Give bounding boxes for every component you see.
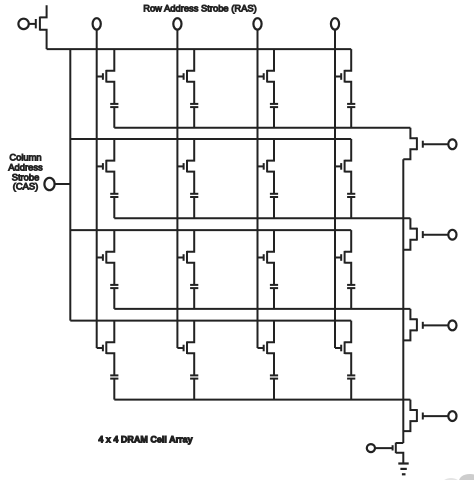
wire Q12 source to capacitor: [187, 82, 194, 104]
wire QR1 gate lead: [423, 143, 449, 145]
wire QR3 drain jog: [410, 309, 417, 319]
wire QR2 source to common line: [403, 240, 417, 250]
wire C24 to storage bus: [350, 197, 352, 218]
wire Q14 drain to row bus: [345, 49, 352, 71]
wire Q24 drain to row bus: [345, 139, 352, 161]
wire Q21 source to capacitor: [106, 172, 114, 194]
wire Q23 gate lead: [258, 165, 264, 167]
wire QR3 source to common line: [403, 330, 417, 340]
transistor Q12 gate bar: [183, 73, 185, 80]
wire word line 1: [96, 30, 98, 348]
transistor Q22 channel: [186, 160, 188, 173]
wire Q42 source to capacitor: [187, 353, 194, 375]
transistor QR3 channel: [416, 318, 418, 331]
wire Q41 gate lead: [97, 347, 103, 349]
capacitor C34 top plate: [347, 284, 355, 286]
transistor Q11 gate bar: [102, 73, 104, 80]
transistor QR1 gate bar: [422, 141, 424, 148]
terminal CAS input: [44, 178, 54, 190]
wire Q-RAS drain up: [40, 5, 47, 17]
wire QR2 gate lead: [423, 234, 449, 236]
wire Q13 gate lead: [258, 76, 264, 78]
transistor Q34 channel: [344, 251, 346, 264]
wire Q21 gate lead: [97, 165, 103, 167]
wire C33 to storage bus: [273, 288, 275, 309]
capacitor C44 bottom plate: [347, 378, 355, 380]
wire Q34 gate lead: [335, 257, 341, 259]
wire C43 to storage bus: [273, 379, 275, 400]
wire Q13 source to capacitor: [267, 82, 274, 104]
wire QR4 source to common line: [403, 421, 417, 431]
wire Q22 drain to row bus: [187, 139, 194, 161]
wire Q44 source to capacitor: [345, 353, 352, 375]
wire Q-RAS source down: [40, 30, 47, 49]
wire Q24 source to capacitor: [345, 172, 352, 194]
transistor Q21 channel: [105, 160, 107, 173]
wire Q32 gate lead: [177, 257, 183, 259]
wire row 1 storage bus: [114, 127, 410, 129]
wire C22 to storage bus: [193, 197, 195, 218]
wire row 3 top bus: [70, 229, 351, 231]
wire row 4 storage bus: [114, 399, 410, 401]
transistor Q22 gate bar: [183, 163, 185, 170]
wire Q12 drain to row bus: [187, 49, 194, 71]
transistor Q13 gate bar: [263, 73, 265, 80]
wire Q14 source to capacitor: [345, 82, 352, 104]
transistor Q21 gate bar: [102, 163, 104, 170]
transistor QR2 gate bar: [422, 231, 424, 238]
wire C12 to storage bus: [193, 107, 195, 128]
wire CAS vertical bus: [69, 49, 71, 321]
transistor Q-OUT gate bar: [392, 445, 394, 450]
wire row 3 storage bus: [114, 308, 410, 310]
wire Q44 drain to row bus: [345, 321, 352, 343]
wire C23 to storage bus: [273, 197, 275, 218]
terminal output enable: [367, 444, 375, 452]
capacitor C21 bottom plate: [110, 196, 118, 198]
transistor Q43 channel: [266, 341, 268, 354]
capacitor C44 top plate: [347, 374, 355, 376]
capacitor C32 bottom plate: [190, 287, 198, 289]
wire Q41 source to capacitor: [106, 353, 114, 375]
transistor Q42 gate bar: [183, 345, 185, 352]
transistor QR4 channel: [416, 409, 418, 422]
capacitor C42 top plate: [190, 374, 198, 376]
capacitor C11 bottom plate: [110, 106, 118, 108]
wire Q11 source to capacitor: [106, 82, 114, 104]
transistor Q23 gate bar: [263, 163, 265, 170]
capacitor C33 top plate: [270, 284, 278, 286]
wire C32 to storage bus: [193, 288, 195, 309]
wire C13 to storage bus: [273, 107, 275, 128]
capacitor C43 bottom plate: [270, 378, 278, 380]
wire C42 to storage bus: [193, 379, 195, 400]
capacitor C41 bottom plate: [110, 378, 118, 380]
label 4 x 4 DRAM Cell Array: [98, 434, 192, 444]
wire C14 to storage bus: [350, 107, 352, 128]
capacitor C42 bottom plate: [190, 378, 198, 380]
wire Q33 source to capacitor: [267, 263, 274, 285]
wire Q11 gate lead: [97, 76, 103, 78]
wire C44 to storage bus: [350, 379, 352, 400]
wire word line 3: [257, 30, 259, 348]
wire Q31 drain to row bus: [106, 230, 114, 252]
wire CAS lead: [55, 183, 71, 185]
transistor Q41 gate bar: [102, 345, 104, 352]
wire Q31 source to capacitor: [106, 263, 114, 285]
wire Q32 drain to row bus: [187, 230, 194, 252]
capacitor C34 bottom plate: [347, 287, 355, 289]
wire Q22 gate lead: [177, 165, 183, 167]
transistor Q44 gate bar: [340, 345, 342, 352]
svg-text:4 x 4 DRAM Cell Array: 4 x 4 DRAM Cell Array: [98, 434, 192, 444]
transistor Q42 channel: [186, 341, 188, 354]
wire C41 to storage bus: [113, 379, 115, 400]
capacitor C22 top plate: [190, 193, 198, 195]
wire row 2 storage bus: [114, 217, 410, 219]
transistor Q14 channel: [344, 70, 346, 83]
transistor Q43 gate bar: [263, 345, 265, 352]
terminal column 3: [253, 18, 261, 29]
wire Q32 source to capacitor: [187, 263, 194, 285]
wire Q21 drain to row bus: [106, 139, 114, 161]
wire RAS gate lead: [29, 23, 36, 25]
wire Q33 drain to row bus: [267, 230, 274, 252]
wire Q34 drain to row bus: [345, 230, 352, 252]
capacitor C24 bottom plate: [347, 196, 355, 198]
capacitor C33 bottom plate: [270, 287, 278, 289]
svg-text:Row Address Strobe (RAS): Row Address Strobe (RAS): [143, 3, 257, 14]
wire Q22 source to capacitor: [187, 172, 194, 194]
transistor Q32 channel: [186, 251, 188, 264]
transistor Q31 channel: [105, 251, 107, 264]
transistor QR4 gate bar: [422, 413, 424, 420]
transistor Q-RAS gate bar: [35, 19, 37, 28]
wire QR4 drain jog: [410, 400, 417, 410]
transistor Q-RAS channel: [39, 17, 41, 31]
transistor Q44 channel: [344, 341, 346, 354]
transistor QR2 channel: [416, 228, 418, 241]
capacitor C13 top plate: [270, 103, 278, 105]
transistor Q41 channel: [105, 341, 107, 354]
capacitor C41 top plate: [110, 374, 118, 376]
capacitor C22 bottom plate: [190, 196, 198, 198]
capacitor C43 top plate: [270, 374, 278, 376]
wire row 1 top bus: [47, 48, 352, 50]
wire Q23 drain to row bus: [267, 139, 274, 161]
watermark smudge: [442, 474, 474, 480]
transistor Q-OUT channel: [395, 443, 397, 454]
transistor Q34 gate bar: [340, 254, 342, 261]
capacitor C12 top plate: [190, 103, 198, 105]
wire C11 to storage bus: [113, 107, 115, 128]
terminal row 3 select: [448, 321, 456, 331]
wire QR1 source to common line: [403, 149, 417, 159]
terminal column 1: [93, 18, 101, 29]
terminal row 1 select: [448, 139, 456, 149]
wire C34 to storage bus: [350, 288, 352, 309]
capacitor C31 top plate: [110, 284, 118, 286]
label Row Address Strobe (RAS): [143, 3, 257, 14]
capacitor C11 top plate: [110, 103, 118, 105]
transistor QR1 channel: [416, 137, 418, 150]
capacitor C23 bottom plate: [270, 196, 278, 198]
wire Q41 drain to row bus: [106, 321, 114, 343]
wire word line 4: [334, 30, 336, 348]
terminal row 4 select: [448, 411, 456, 421]
transistor Q31 gate bar: [102, 254, 104, 261]
capacitor C13 bottom plate: [270, 106, 278, 108]
wire Q34 source to capacitor: [345, 263, 352, 285]
wire Q-OUT source to ground: [396, 453, 404, 464]
label Column Address Strobe (CAS): [8, 152, 43, 192]
wire Q33 gate lead: [258, 257, 264, 259]
wire Q43 gate lead: [258, 347, 264, 349]
wire common data line: [402, 159, 404, 443]
wire Q42 drain to row bus: [187, 321, 194, 343]
transistor QR3 gate bar: [422, 322, 424, 329]
transistor Q14 gate bar: [340, 73, 342, 80]
wire C21 to storage bus: [113, 197, 115, 218]
ground: [398, 464, 408, 475]
wire Q24 gate lead: [335, 165, 341, 167]
capacitor C12 bottom plate: [190, 106, 198, 108]
capacitor C21 top plate: [110, 193, 118, 195]
wire QR2 drain jog: [410, 218, 417, 228]
transistor Q33 gate bar: [263, 254, 265, 261]
wire Q31 gate lead: [97, 257, 103, 259]
wire Q14 gate lead: [335, 76, 341, 78]
terminal row 2 select: [448, 230, 456, 240]
transistor Q11 channel: [105, 70, 107, 83]
transistor Q24 channel: [344, 160, 346, 173]
wire row 4 top bus: [70, 320, 351, 322]
capacitor C32 top plate: [190, 284, 198, 286]
wire Q-OUT drain: [396, 442, 404, 444]
wire Q-OUT gate lead: [375, 447, 393, 449]
wire Q12 gate lead: [177, 76, 183, 78]
capacitor C14 top plate: [347, 103, 355, 105]
wire word line 2: [176, 30, 178, 348]
wire Q44 gate lead: [335, 347, 341, 349]
wire QR3 gate lead: [423, 324, 449, 326]
wire QR4 gate lead: [423, 415, 449, 417]
transistor Q23 channel: [266, 160, 268, 173]
transistor Q13 channel: [266, 70, 268, 83]
wire C31 to storage bus: [113, 288, 115, 309]
capacitor C14 bottom plate: [347, 106, 355, 108]
terminal column 2: [173, 18, 181, 29]
transistor Q32 gate bar: [183, 254, 185, 261]
wire Q43 drain to row bus: [267, 321, 274, 343]
svg-text:(CAS): (CAS): [13, 181, 39, 192]
transistor Q12 channel: [186, 70, 188, 83]
capacitor C31 bottom plate: [110, 287, 118, 289]
capacitor C24 top plate: [347, 193, 355, 195]
capacitor C23 top plate: [270, 193, 278, 195]
wire Q23 source to capacitor: [267, 172, 274, 194]
terminal column 4: [331, 18, 339, 29]
wire Q42 gate lead: [177, 347, 183, 349]
wire Q13 drain to row bus: [267, 49, 274, 71]
transistor Q24 gate bar: [340, 163, 342, 170]
wire Q11 drain to row bus: [106, 49, 114, 71]
transistor Q33 channel: [266, 251, 268, 264]
wire Q43 source to capacitor: [267, 353, 274, 375]
wire row 2 top bus: [70, 138, 351, 140]
wire QR1 drain jog: [410, 128, 417, 138]
terminal RAS input: [18, 19, 28, 29]
